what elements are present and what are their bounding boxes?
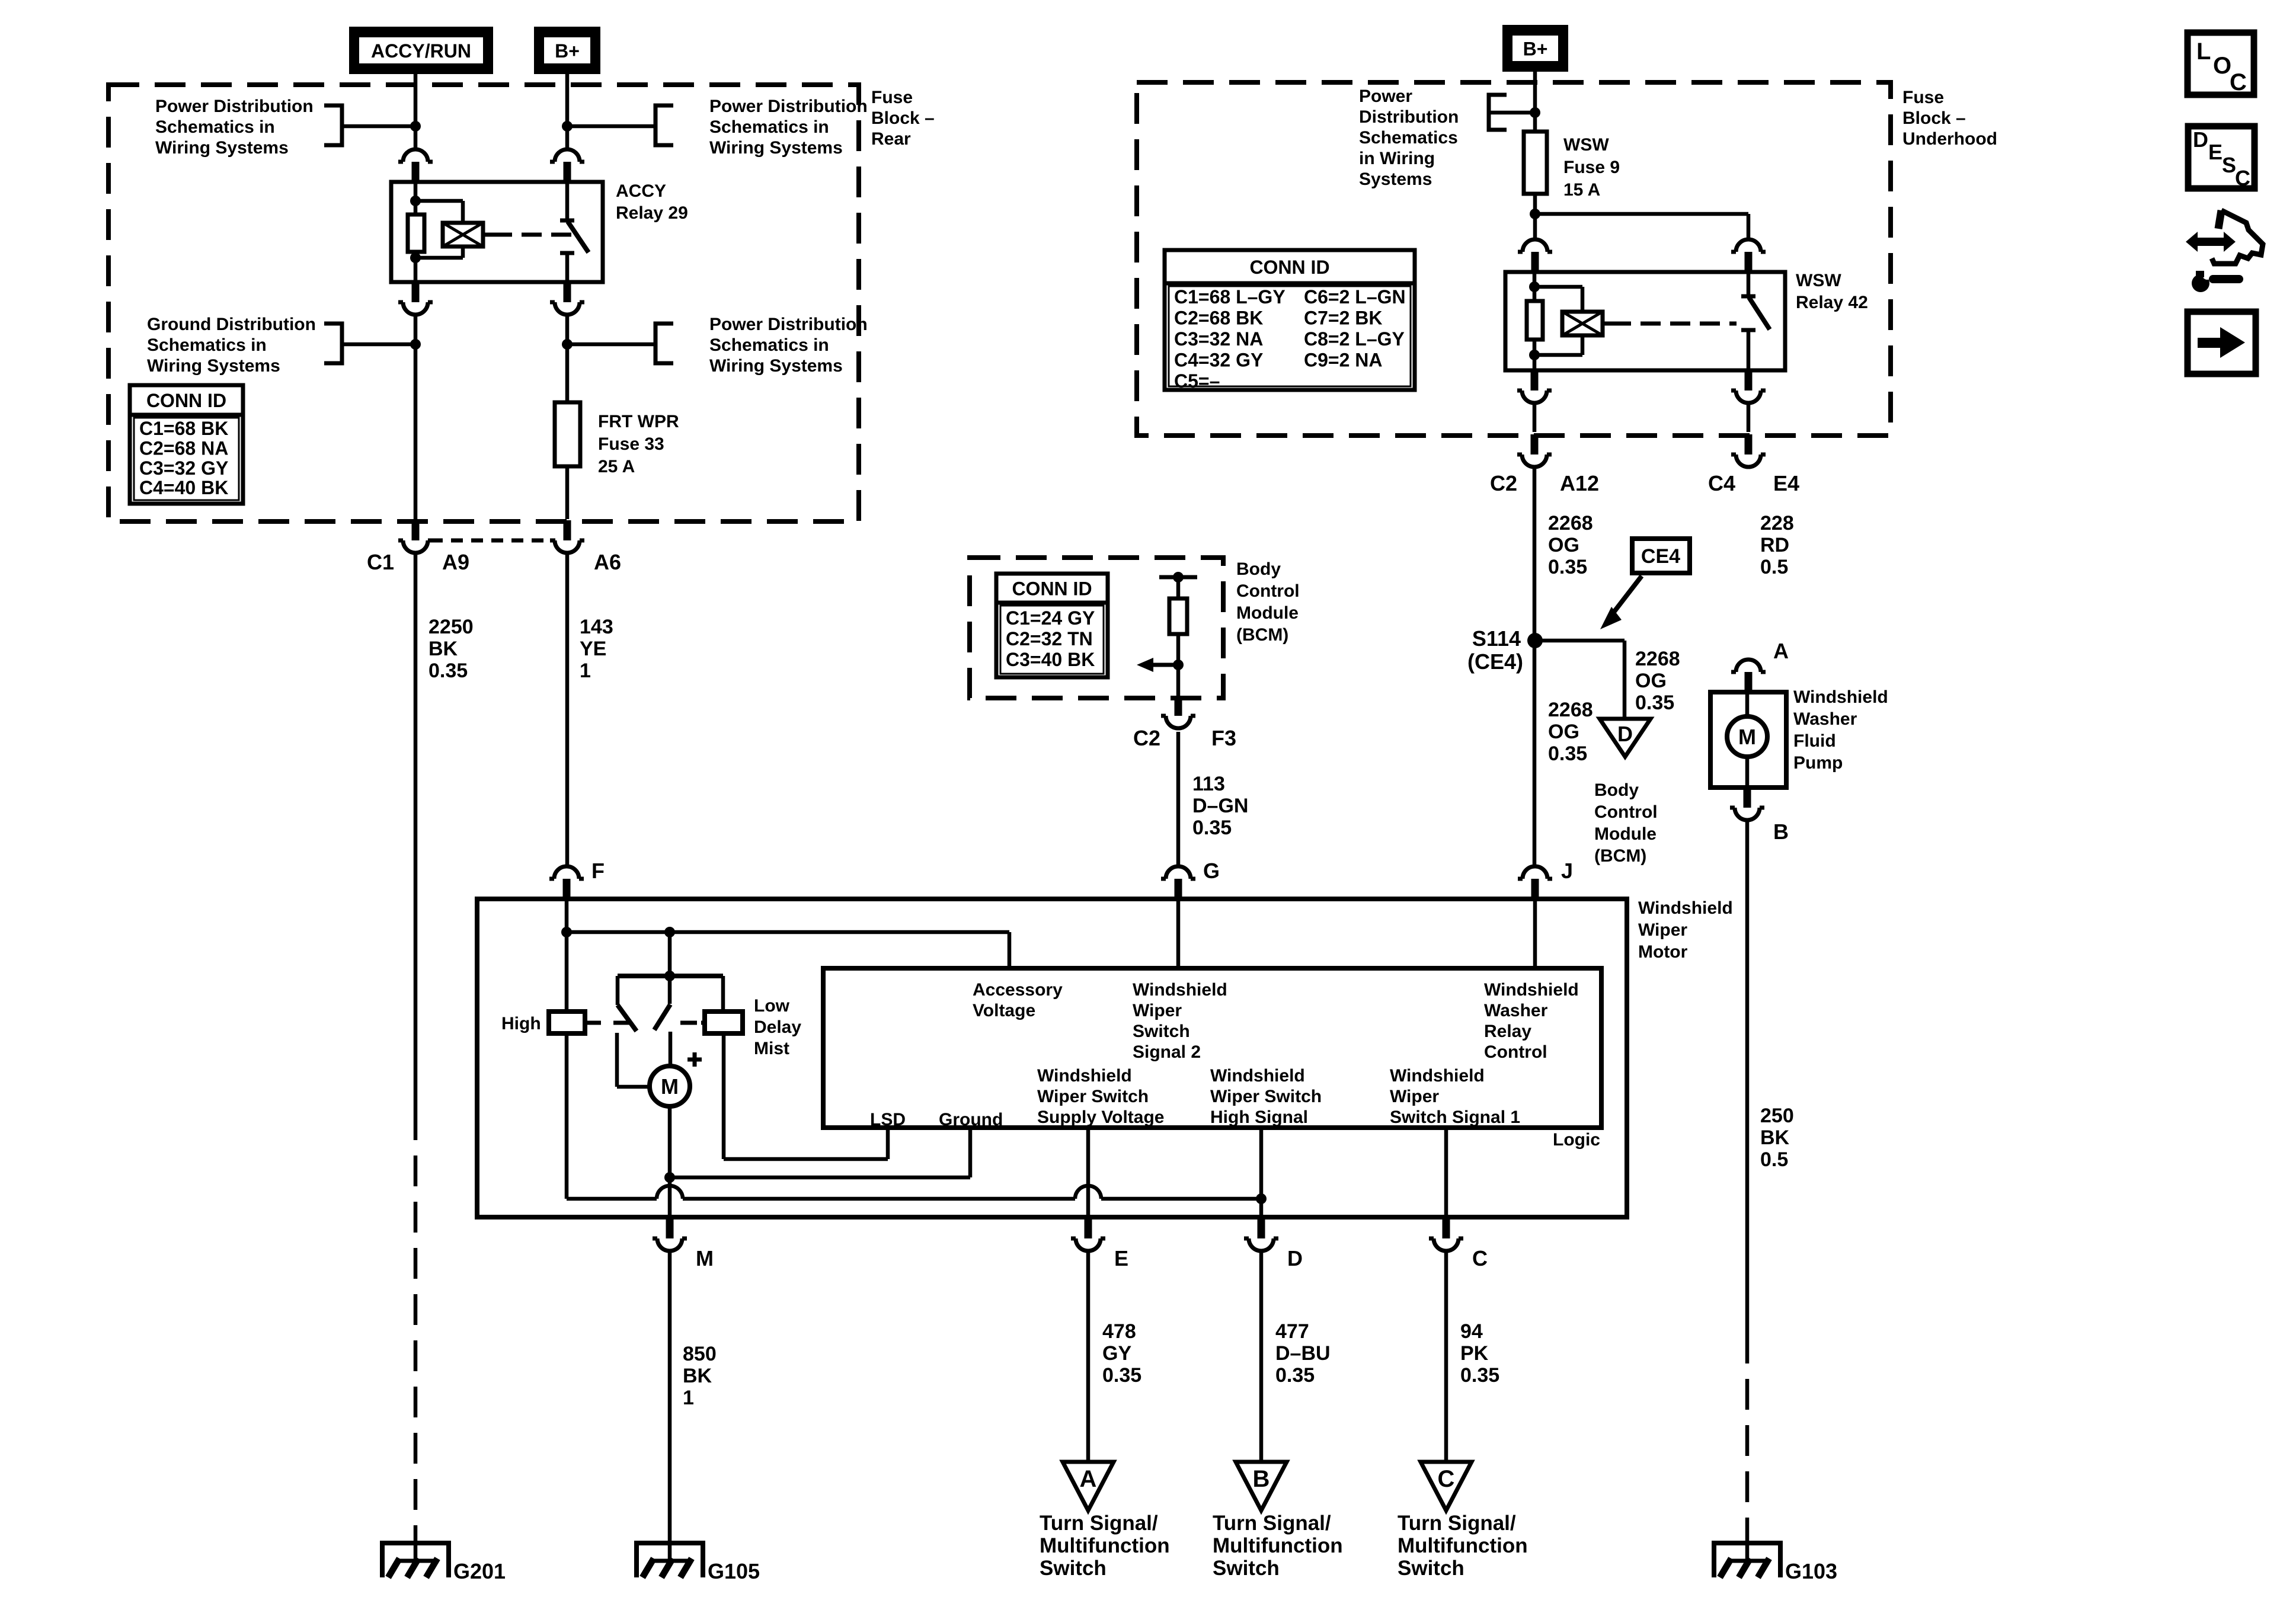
svg-text:C: C: [2230, 69, 2247, 95]
svg-text:Switch: Switch: [1040, 1557, 1107, 1580]
svg-text:C2=32 TN: C2=32 TN: [1006, 628, 1093, 649]
svg-text:Accessory: Accessory: [973, 980, 1063, 1000]
svg-text:A: A: [1080, 1466, 1097, 1492]
svg-text:G103: G103: [1785, 1559, 1837, 1583]
svg-text:CONN ID: CONN ID: [146, 390, 226, 411]
svg-text:C: C: [2235, 166, 2250, 190]
svg-text:Body: Body: [1594, 780, 1639, 800]
svg-text:Windshield: Windshield: [1793, 687, 1888, 707]
svg-text:0.35: 0.35: [1548, 556, 1587, 578]
svg-text:2268: 2268: [1548, 512, 1593, 534]
svg-text:F3: F3: [1211, 726, 1236, 750]
svg-text:OG: OG: [1548, 534, 1579, 556]
svg-text:Switch: Switch: [1398, 1557, 1464, 1580]
svg-text:C3=40 BK: C3=40 BK: [1006, 649, 1095, 670]
svg-text:94: 94: [1460, 1320, 1483, 1343]
svg-text:Switch: Switch: [1213, 1557, 1280, 1580]
svg-text:Systems: Systems: [1359, 169, 1432, 189]
svg-text:Module: Module: [1594, 824, 1657, 844]
svg-text:Wiper Switch: Wiper Switch: [1037, 1087, 1149, 1106]
svg-text:BK: BK: [683, 1365, 712, 1387]
svg-text:E: E: [1114, 1246, 1128, 1270]
svg-text:High: High: [501, 1014, 541, 1033]
svg-text:0.5: 0.5: [1760, 556, 1788, 578]
svg-text:Motor: Motor: [1638, 942, 1688, 962]
svg-text:BK: BK: [1760, 1126, 1790, 1149]
svg-text:850: 850: [683, 1343, 717, 1365]
svg-text:CONN ID: CONN ID: [1012, 578, 1092, 600]
svg-text:Wiring Systems: Wiring Systems: [147, 356, 280, 376]
svg-text:Ground: Ground: [939, 1110, 1003, 1129]
svg-text:Control: Control: [1236, 581, 1300, 601]
svg-text:Fuse 33: Fuse 33: [598, 434, 664, 454]
svg-text:Schematics in: Schematics in: [709, 335, 829, 355]
svg-text:1: 1: [683, 1387, 694, 1409]
svg-text:C1=68 L–GY: C1=68 L–GY: [1174, 286, 1285, 308]
svg-text:C2: C2: [1490, 471, 1517, 495]
svg-text:C4: C4: [1708, 471, 1735, 495]
svg-text:Schematics in: Schematics in: [709, 117, 829, 137]
svg-text:Washer: Washer: [1484, 1001, 1548, 1020]
svg-text:Wiring Systems: Wiring Systems: [709, 138, 843, 158]
svg-text:YE: YE: [580, 638, 606, 660]
svg-text:Wiper Switch: Wiper Switch: [1210, 1087, 1322, 1106]
svg-text:Schematics: Schematics: [1359, 128, 1458, 148]
svg-text:D: D: [1617, 722, 1633, 746]
svg-text:CE4: CE4: [1641, 545, 1680, 568]
svg-text:PK: PK: [1460, 1342, 1489, 1365]
svg-text:2250: 2250: [428, 616, 474, 638]
svg-text:228: 228: [1760, 512, 1794, 534]
svg-text:O: O: [2213, 53, 2231, 79]
svg-text:0.35: 0.35: [1275, 1364, 1315, 1387]
svg-text:Power: Power: [1359, 87, 1412, 106]
svg-text:Wiper: Wiper: [1133, 1001, 1182, 1020]
svg-text:OG: OG: [1635, 670, 1667, 692]
svg-text:Multifunction: Multifunction: [1213, 1534, 1343, 1557]
svg-text:C: C: [1472, 1246, 1488, 1270]
svg-text:0.35: 0.35: [1460, 1364, 1499, 1387]
svg-text:0.35: 0.35: [1635, 692, 1674, 714]
svg-text:Ground Distribution: Ground Distribution: [147, 315, 316, 334]
svg-text:Voltage: Voltage: [973, 1001, 1035, 1020]
svg-text:Wiper: Wiper: [1390, 1087, 1439, 1106]
svg-text:S114: S114: [1472, 626, 1521, 651]
svg-text:C6=2 L–GN: C6=2 L–GN: [1304, 286, 1406, 308]
svg-text:B: B: [1253, 1466, 1270, 1492]
svg-text:Control: Control: [1594, 802, 1658, 822]
svg-text:M: M: [1738, 725, 1756, 749]
svg-text:Wiper: Wiper: [1638, 920, 1687, 940]
svg-text:CONN ID: CONN ID: [1249, 257, 1329, 278]
svg-text:Switch Signal 1: Switch Signal 1: [1390, 1108, 1520, 1127]
svg-text:Fuse 9: Fuse 9: [1563, 158, 1620, 177]
svg-text:477: 477: [1275, 1320, 1309, 1343]
svg-text:Signal 2: Signal 2: [1133, 1042, 1201, 1062]
svg-text:High Signal: High Signal: [1210, 1108, 1308, 1127]
svg-text:Windshield: Windshield: [1484, 980, 1579, 1000]
svg-text:Turn Signal/: Turn Signal/: [1398, 1512, 1516, 1535]
svg-text:C5=–: C5=–: [1174, 370, 1220, 392]
svg-text:Schematics in: Schematics in: [155, 117, 275, 137]
svg-text:Low: Low: [754, 996, 790, 1016]
svg-text:Power Distribution: Power Distribution: [155, 97, 314, 116]
svg-text:25 A: 25 A: [598, 457, 635, 476]
svg-text:S: S: [2222, 153, 2236, 177]
svg-text:113: 113: [1192, 773, 1225, 795]
svg-text:Washer: Washer: [1793, 709, 1857, 729]
svg-text:OG: OG: [1548, 721, 1579, 743]
svg-text:Relay 42: Relay 42: [1796, 293, 1868, 312]
svg-text:Windshield: Windshield: [1638, 898, 1733, 918]
svg-text:Windshield: Windshield: [1390, 1066, 1485, 1086]
svg-text:Control: Control: [1484, 1042, 1547, 1062]
svg-text:Block –: Block –: [1902, 108, 1966, 128]
svg-text:RD: RD: [1760, 534, 1789, 556]
svg-text:C7=2 BK: C7=2 BK: [1304, 308, 1383, 329]
svg-text:FRT WPR: FRT WPR: [598, 412, 679, 431]
svg-text:Rear: Rear: [871, 129, 911, 149]
svg-text:(CE4): (CE4): [1467, 649, 1523, 674]
svg-text:C1: C1: [367, 550, 394, 574]
svg-text:Block –: Block –: [871, 108, 935, 128]
svg-text:0.35: 0.35: [1102, 1364, 1141, 1387]
svg-text:G105: G105: [708, 1559, 760, 1583]
svg-text:A12: A12: [1560, 471, 1599, 495]
svg-text:Relay 29: Relay 29: [616, 203, 688, 223]
svg-text:J: J: [1561, 859, 1573, 883]
svg-text:C3=32 GY: C3=32 GY: [139, 457, 228, 479]
svg-text:E: E: [2208, 140, 2223, 164]
svg-text:in Wiring: in Wiring: [1359, 149, 1435, 168]
svg-text:0.35: 0.35: [1548, 742, 1587, 765]
svg-text:D–BU: D–BU: [1275, 1342, 1331, 1365]
svg-text:Mist: Mist: [754, 1039, 789, 1058]
svg-text:B: B: [1773, 820, 1789, 844]
svg-text:Switch: Switch: [1133, 1022, 1190, 1041]
svg-text:478: 478: [1102, 1320, 1136, 1343]
svg-text:Power Distribution: Power Distribution: [709, 97, 868, 116]
svg-text:Windshield: Windshield: [1210, 1066, 1305, 1086]
svg-text:0.35: 0.35: [428, 660, 468, 682]
svg-text:D: D: [2193, 127, 2208, 152]
svg-text:Windshield: Windshield: [1037, 1066, 1132, 1086]
svg-text:Supply Voltage: Supply Voltage: [1037, 1108, 1164, 1127]
svg-text:0.5: 0.5: [1760, 1148, 1788, 1171]
svg-text:C4=32 GY: C4=32 GY: [1174, 350, 1263, 371]
svg-text:Body: Body: [1236, 559, 1281, 579]
svg-text:C: C: [1438, 1466, 1455, 1492]
svg-text:250: 250: [1760, 1105, 1794, 1127]
svg-text:L: L: [2196, 39, 2211, 65]
svg-text:C1=68 BK: C1=68 BK: [139, 418, 228, 439]
svg-text:A: A: [1773, 639, 1789, 663]
svg-text:Wiring Systems: Wiring Systems: [709, 356, 843, 376]
svg-text:Underhood: Underhood: [1902, 129, 1997, 149]
svg-text:A9: A9: [442, 550, 469, 574]
svg-text:E4: E4: [1773, 471, 1799, 495]
svg-text:WSW: WSW: [1563, 135, 1609, 155]
svg-text:WSW: WSW: [1796, 271, 1841, 290]
svg-text:Power Distribution: Power Distribution: [709, 315, 868, 334]
svg-text:G: G: [1203, 859, 1220, 883]
svg-text:C2=68 BK: C2=68 BK: [1174, 308, 1263, 329]
svg-text:Turn Signal/: Turn Signal/: [1040, 1512, 1158, 1535]
svg-text:143: 143: [580, 616, 613, 638]
svg-text:Pump: Pump: [1793, 753, 1843, 773]
svg-text:Windshield: Windshield: [1133, 980, 1227, 1000]
svg-text:(BCM): (BCM): [1236, 625, 1288, 645]
svg-text:Multifunction: Multifunction: [1040, 1534, 1170, 1557]
svg-text:B+: B+: [1523, 39, 1548, 60]
svg-text:M: M: [661, 1074, 679, 1099]
svg-text:C3=32 NA: C3=32 NA: [1174, 328, 1263, 350]
svg-text:C1=24 GY: C1=24 GY: [1006, 607, 1095, 629]
svg-text:15 A: 15 A: [1563, 180, 1600, 200]
svg-text:Module: Module: [1236, 603, 1299, 623]
svg-text:0.35: 0.35: [1192, 817, 1232, 839]
svg-text:B+: B+: [555, 40, 580, 62]
svg-text:C9=2 NA: C9=2 NA: [1304, 350, 1383, 371]
svg-text:Multifunction: Multifunction: [1398, 1534, 1528, 1557]
svg-text:Fuse: Fuse: [871, 88, 913, 107]
svg-text:(BCM): (BCM): [1594, 846, 1646, 866]
svg-text:ACCY: ACCY: [616, 181, 666, 201]
svg-text:Relay: Relay: [1484, 1022, 1531, 1041]
svg-text:F: F: [591, 859, 605, 883]
svg-text:1: 1: [580, 660, 591, 682]
svg-text:Fuse: Fuse: [1902, 88, 1944, 107]
svg-text:C8=2 L–GY: C8=2 L–GY: [1304, 328, 1405, 350]
svg-text:Turn Signal/: Turn Signal/: [1213, 1512, 1331, 1535]
svg-text:C4=40 BK: C4=40 BK: [139, 477, 228, 498]
svg-text:2268: 2268: [1635, 648, 1680, 670]
svg-text:Wiring Systems: Wiring Systems: [155, 138, 289, 158]
svg-text:BK: BK: [428, 638, 458, 660]
svg-text:G201: G201: [453, 1559, 506, 1583]
svg-text:2268: 2268: [1548, 699, 1593, 721]
svg-text:M: M: [696, 1246, 714, 1270]
svg-text:D: D: [1287, 1246, 1303, 1270]
svg-text:LSD: LSD: [870, 1110, 906, 1129]
svg-text:Distribution: Distribution: [1359, 107, 1459, 127]
svg-text:Schematics in: Schematics in: [147, 335, 267, 355]
svg-text:D–GN: D–GN: [1192, 795, 1248, 817]
svg-text:GY: GY: [1102, 1342, 1131, 1365]
svg-text:Logic: Logic: [1553, 1130, 1600, 1150]
svg-text:Delay: Delay: [754, 1017, 801, 1037]
svg-text:ACCY/RUN: ACCY/RUN: [371, 40, 471, 62]
svg-text:Fluid: Fluid: [1793, 731, 1836, 751]
svg-text:C2: C2: [1133, 726, 1160, 750]
svg-text:C2=68 NA: C2=68 NA: [139, 437, 228, 459]
svg-text:A6: A6: [594, 550, 621, 574]
